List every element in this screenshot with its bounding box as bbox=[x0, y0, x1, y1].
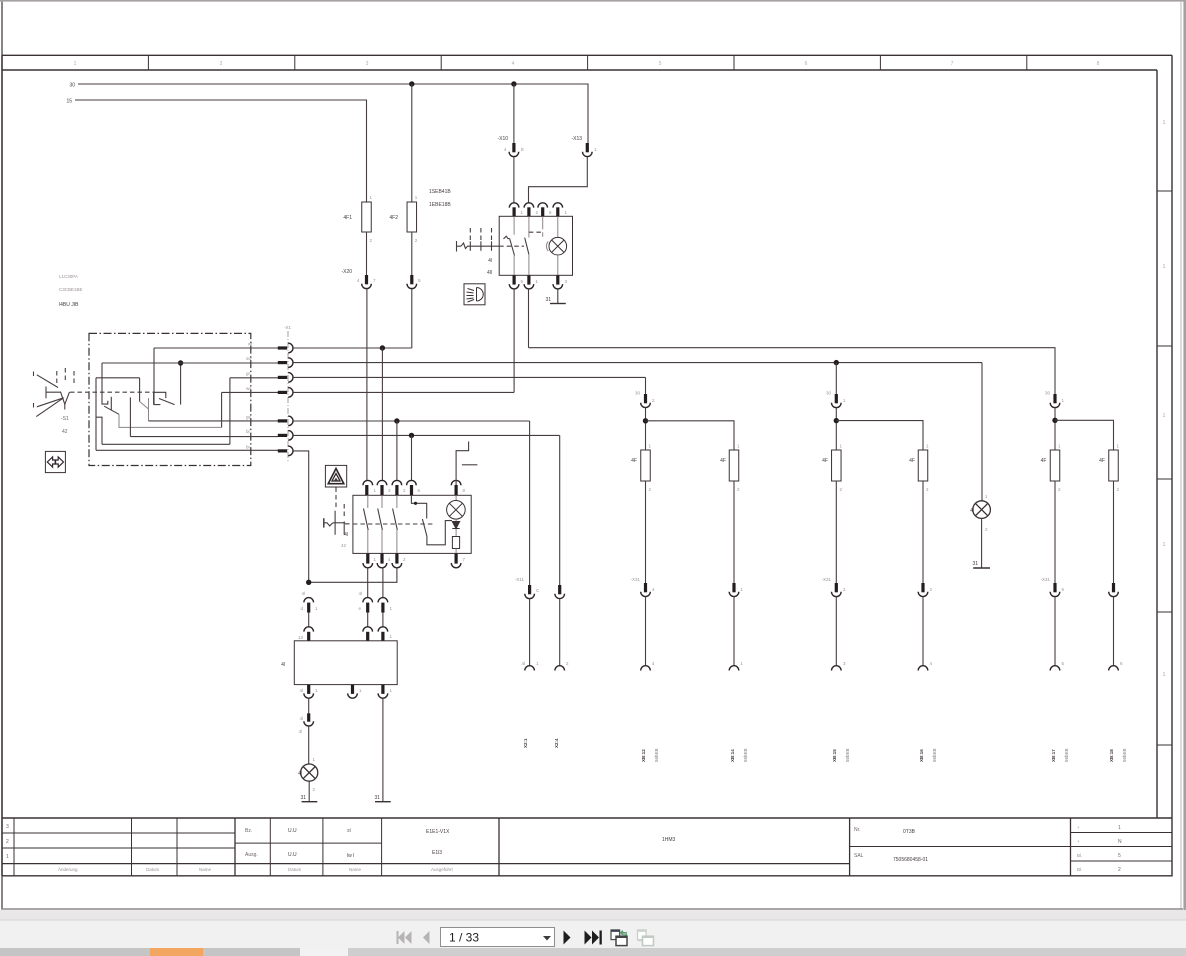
hazard top pin3 arc bbox=[392, 480, 402, 485]
viewer gap strip bbox=[0, 910, 1186, 920]
revision index column bbox=[13, 818, 15, 876]
fuse F1 bbox=[362, 202, 372, 232]
inner frame right bbox=[1156, 70, 1158, 818]
junction row5/x397 bbox=[394, 418, 399, 423]
S30 contact1 lower stem bbox=[513, 256, 515, 276]
hazard contact4 blade bbox=[422, 519, 427, 537]
svg-text:4: 4 bbox=[512, 61, 515, 67]
contact4 arm from row2 bbox=[180, 363, 182, 405]
revision col divider 2 bbox=[176, 818, 178, 876]
hazard bottom pin2 arc bbox=[377, 563, 387, 568]
svg-text:4l: 4l bbox=[301, 591, 305, 596]
svg-text:1: 1 bbox=[1163, 542, 1166, 548]
hazard resistor stem bbox=[455, 549, 457, 554]
hazard step dot bbox=[414, 502, 417, 505]
wire S30 pin2 down to busP bbox=[528, 289, 530, 348]
svg-text:4l: 4l bbox=[344, 532, 348, 538]
key mech tick2 bbox=[480, 241, 482, 251]
svg-text:X2:1: X2:1 bbox=[523, 738, 528, 748]
svg-text:13: 13 bbox=[298, 635, 304, 640]
junction bus30/X10 bbox=[511, 81, 516, 86]
x382 pair1 bar bbox=[381, 603, 384, 613]
wire x559 to terminal bbox=[559, 599, 561, 667]
colF wire down bbox=[1113, 481, 1115, 583]
hazard contact4 return bbox=[427, 521, 452, 545]
X1 pin3 arc bbox=[288, 373, 293, 383]
wire S30 pin1 down to row4 bbox=[513, 289, 515, 392]
svg-text:Ausg.: Ausg. bbox=[245, 852, 258, 858]
row5 wire internal bbox=[149, 420, 279, 422]
wire hazard pin3 to row7 node bbox=[309, 568, 397, 583]
S30 lamp stem lower bbox=[557, 255, 559, 275]
X1 pin4 arc bbox=[288, 388, 293, 398]
x367 pair1 arc bbox=[363, 598, 373, 603]
svg-text:st: st bbox=[347, 828, 352, 834]
top zone band divider 4 bbox=[587, 55, 589, 70]
headlight lens bbox=[477, 288, 484, 302]
hazard top pin2 bar bbox=[380, 485, 383, 495]
svg-text:4l: 4l bbox=[488, 258, 492, 264]
ground bar A1 bbox=[375, 801, 391, 803]
svg-text:X2:4: X2:4 bbox=[554, 738, 559, 748]
internal left drop to row7 bbox=[95, 378, 97, 451]
svg-text:Bl.: Bl. bbox=[1077, 867, 1082, 872]
S30 bottom pin3 bar bbox=[556, 275, 559, 284]
svg-text:30: 30 bbox=[1045, 391, 1051, 396]
junction bus30/F2 bbox=[409, 81, 414, 86]
flasher unit A1 box bbox=[294, 641, 397, 685]
A1 bottom pin2 arc bbox=[348, 693, 358, 698]
top zone labels bbox=[74, 61, 1100, 67]
wire x411 drop bbox=[411, 435, 413, 480]
mech dashes into box bbox=[345, 523, 353, 525]
svg-text:7: 7 bbox=[951, 61, 954, 67]
schematic inner frame (zone band bottom) bbox=[2, 69, 1157, 71]
svg-text:-X13: -X13 bbox=[571, 136, 582, 142]
prev page button bbox=[423, 931, 430, 944]
wire F2 to X3 bbox=[411, 232, 413, 275]
bus 15 wire bbox=[75, 100, 367, 202]
connector X10 socket arc bbox=[509, 152, 519, 157]
hazard lamp cross bbox=[449, 503, 462, 516]
fuse F2 bbox=[407, 202, 417, 232]
hazard hook tick bbox=[462, 464, 478, 466]
row3 wire internal bbox=[230, 377, 278, 379]
colC drop from busQ bbox=[835, 363, 837, 394]
svg-text:E: E bbox=[521, 147, 524, 152]
svg-text:+: + bbox=[1077, 839, 1080, 844]
S30 contact2 lower stem bbox=[528, 254, 530, 275]
svg-text:56bEB: 56bEB bbox=[1064, 748, 1069, 762]
X1 pin5 bar bbox=[278, 419, 287, 422]
wire row6 drop bbox=[559, 435, 561, 585]
description col divider bbox=[498, 818, 500, 876]
drawing area bottom border bbox=[2, 817, 1172, 819]
page left edge bbox=[1, 2, 3, 909]
toolbar top border bbox=[0, 919, 1186, 921]
open in new window icon bbox=[611, 930, 627, 946]
key switch S1 wiper V bbox=[61, 392, 70, 405]
x367 gap wire bbox=[367, 613, 369, 627]
svg-text:L1C30PA: L1C30PA bbox=[59, 274, 78, 279]
x308 lower pair bar bbox=[307, 713, 310, 721]
wire A1 pin3 down to ground bbox=[382, 698, 384, 802]
key switch S1 lever lower1 bbox=[37, 398, 64, 407]
mid row divider bbox=[235, 842, 382, 844]
S30 bottom pin2 arc bbox=[524, 284, 534, 289]
S30 top pin4 bar bbox=[556, 207, 559, 216]
first page button bbox=[398, 931, 405, 944]
svg-text:31: 31 bbox=[972, 561, 978, 567]
terminal x529 arc bbox=[525, 666, 535, 671]
wire F1 to X2 bbox=[366, 232, 368, 275]
push rod tick2 bbox=[343, 521, 345, 534]
A1 bottom pin1 bar bbox=[307, 685, 310, 694]
colC wire to dot bbox=[835, 408, 837, 451]
svg-text:Bl.: Bl. bbox=[1077, 853, 1082, 858]
dashed enclosure box bbox=[89, 333, 251, 465]
contact1 fixed L bbox=[102, 378, 108, 404]
switch S30 box bbox=[499, 216, 572, 275]
doc number row divider bbox=[850, 846, 1071, 848]
svg-text:ws: ws bbox=[246, 386, 252, 391]
wire x397 drop bbox=[396, 421, 398, 481]
contact2 arm bbox=[139, 378, 141, 402]
wire x529 to terminal bbox=[529, 599, 531, 667]
sheet symbol arrows box bbox=[45, 451, 65, 472]
taskbar strip bbox=[0, 948, 1186, 956]
colD terminal arc bbox=[918, 666, 928, 671]
svg-text:Datum: Datum bbox=[146, 867, 160, 872]
svg-text:6: 6 bbox=[805, 61, 808, 67]
internal bottom link bbox=[102, 443, 230, 445]
hazard contact3 blade bbox=[393, 509, 398, 531]
title block header row line bbox=[2, 863, 850, 865]
connector X2 socket arc bbox=[362, 284, 372, 289]
row2 wire internal bbox=[102, 362, 278, 364]
window top border bbox=[0, 0, 1186, 2]
hazard resistor bbox=[452, 537, 459, 549]
hazard lamp stem bbox=[455, 495, 457, 500]
doc number col divider bbox=[849, 818, 851, 876]
svg-text:4F: 4F bbox=[1099, 458, 1105, 464]
title block bottom border bbox=[2, 875, 1172, 877]
key switch terminal bbox=[457, 241, 462, 252]
svg-text:-X31: -X31 bbox=[1040, 577, 1050, 582]
colB wire to terminal bbox=[733, 597, 735, 667]
S30 top pin1 bar bbox=[513, 207, 516, 216]
svg-text:-X10: -X10 bbox=[497, 136, 508, 142]
hazard bottom pin1 arc bbox=[363, 563, 373, 568]
hazard contact2 lower bbox=[381, 530, 383, 553]
svg-text:30: 30 bbox=[69, 83, 75, 89]
connector X3 pin bar bbox=[410, 275, 413, 284]
wire X13 to K pin2 bbox=[529, 157, 588, 203]
right zone band divider b bbox=[1157, 345, 1172, 347]
A1 bottom pin3 arc bbox=[378, 693, 388, 698]
wire lamp H3 to ground bbox=[981, 518, 983, 568]
sheet info row divider 3 bbox=[1071, 860, 1173, 862]
svg-text:XB:12: XB:12 bbox=[641, 749, 646, 762]
svg-text:1: 1 bbox=[1163, 120, 1166, 126]
colA lower connector arc bbox=[641, 592, 651, 597]
top zone band divider 7 bbox=[1026, 55, 1028, 70]
page bottom edge bbox=[1, 908, 1183, 910]
colF lower connector bar bbox=[1112, 583, 1115, 592]
revision col divider 1 bbox=[131, 818, 133, 876]
push rod tick2 dashes bbox=[343, 504, 345, 517]
internal link y427 bbox=[119, 426, 222, 428]
colC connector arc bbox=[832, 403, 842, 408]
junction row1/x382 bbox=[380, 345, 385, 350]
page right edge bbox=[1180, 2, 1182, 909]
svg-text:4F: 4F bbox=[909, 458, 915, 464]
x308 pair1 arc bbox=[304, 598, 314, 603]
row3 vertical internal bbox=[229, 378, 231, 445]
hazard contact1 stem bbox=[367, 495, 369, 508]
hazard top pin4 arc bbox=[407, 480, 417, 485]
svg-text:1: 1 bbox=[1163, 672, 1166, 678]
x367 pair2 bar bbox=[366, 632, 369, 641]
branch colC to colD bbox=[836, 421, 923, 450]
X1 pin2 arc bbox=[288, 358, 293, 368]
svg-text:C3CBE1BE: C3CBE1BE bbox=[59, 287, 83, 292]
colA connector arc bbox=[641, 403, 651, 408]
svg-text:E1l3: E1l3 bbox=[432, 850, 442, 856]
bus 30 wire bbox=[78, 84, 588, 143]
key mech tick1 dash bbox=[469, 228, 471, 240]
wire x382 drop bbox=[381, 348, 383, 481]
A1 bottom pin2 bar bbox=[351, 685, 354, 694]
wire hazard pin1 down bbox=[367, 568, 369, 598]
svg-text:4F: 4F bbox=[1041, 458, 1047, 464]
hazard switch box bbox=[353, 495, 471, 553]
hazard bottom pin1 bar bbox=[366, 553, 369, 563]
arrow right bbox=[56, 457, 64, 467]
row4 wire internal bbox=[222, 391, 278, 393]
svg-text:wt: wt bbox=[248, 342, 253, 347]
mech link key to box bbox=[70, 391, 154, 393]
svg-text:3: 3 bbox=[366, 61, 369, 67]
hazard bottom pin5 arc bbox=[451, 563, 461, 568]
hazard top pin5 arc bbox=[451, 480, 461, 485]
top zone band divider 2 bbox=[294, 55, 296, 70]
svg-text:E1E1-V1X: E1E1-V1X bbox=[426, 829, 450, 835]
junction colE bbox=[1052, 418, 1057, 423]
row7 wire external bbox=[293, 451, 309, 582]
svg-text:-X31: -X31 bbox=[630, 577, 640, 582]
wire F1 column down to hazard pin1 bbox=[366, 289, 368, 481]
S30 pin3 stem bbox=[542, 216, 544, 229]
contact4 blade bbox=[159, 399, 175, 405]
svg-text:-X11: -X11 bbox=[515, 577, 525, 582]
branch colE to colF bbox=[1055, 420, 1114, 450]
arrow left bbox=[47, 457, 55, 467]
hazard bottom pin2 bar bbox=[380, 553, 383, 563]
svg-text:Änderung: Änderung bbox=[58, 866, 78, 872]
connector X10 pin bar bbox=[512, 143, 515, 152]
hazard top pin5 bar bbox=[455, 485, 458, 495]
hazard top pin3 bar bbox=[395, 485, 398, 495]
junction colC bbox=[834, 418, 839, 423]
key mech tick2 dash bbox=[480, 228, 482, 240]
svg-text:4l: 4l bbox=[521, 661, 525, 666]
title block left frame bbox=[1, 55, 3, 876]
hazard pin4 internal step bbox=[411, 495, 426, 518]
colD wire to terminal bbox=[922, 597, 924, 667]
key mech tick1 bbox=[469, 241, 471, 251]
key switch S1 terminal bbox=[46, 387, 61, 399]
X1 pin1 arc bbox=[288, 343, 293, 353]
svg-text:56bEB: 56bEB bbox=[654, 748, 659, 762]
colF lower connector arc bbox=[1109, 592, 1119, 597]
connector strip dashdot bbox=[287, 331, 289, 463]
svg-text:-S1: -S1 bbox=[61, 416, 69, 422]
svg-text:1: 1 bbox=[1163, 264, 1166, 270]
row4 wire external bbox=[293, 391, 514, 393]
svg-text:30: 30 bbox=[826, 391, 832, 396]
A1 bottom pin3 bar bbox=[381, 685, 384, 694]
S30 top pin3 arc bbox=[538, 203, 548, 208]
row6 wire internal bbox=[130, 436, 278, 438]
X1 pin6 bar bbox=[278, 434, 287, 437]
x367 pair2 arc bbox=[363, 627, 373, 632]
wire F2 drop bbox=[411, 84, 413, 202]
S30 contact1 blade bbox=[510, 239, 515, 256]
sheet info row divider 2 bbox=[1071, 846, 1173, 848]
revision table row line 2 bbox=[2, 847, 235, 849]
window right border bbox=[1183, 0, 1186, 910]
colE wire down bbox=[1054, 481, 1056, 583]
hazard bottom pin3 arc bbox=[392, 563, 402, 568]
svg-text:56bEB: 56bEB bbox=[1122, 748, 1127, 762]
right zone band divider e bbox=[1157, 744, 1172, 746]
X1 pin3 bar bbox=[278, 376, 287, 379]
x308 pair2 arc bbox=[304, 627, 314, 632]
row1 wire external bbox=[293, 347, 412, 349]
svg-text:4ll: 4ll bbox=[487, 270, 492, 276]
svg-text:+: + bbox=[1077, 825, 1080, 830]
mid col divider 3 bbox=[381, 818, 383, 876]
hazard contact1 blade bbox=[364, 509, 369, 531]
fuse F5 bbox=[641, 450, 651, 481]
contact1 blade bbox=[104, 406, 119, 414]
svg-text:Name: Name bbox=[199, 867, 212, 872]
hazard push rod bbox=[334, 511, 336, 535]
wire row3 drop at x645 bbox=[645, 377, 647, 394]
hazard top pin1 bar bbox=[365, 485, 368, 495]
colB wire down bbox=[733, 481, 735, 583]
svg-text:XB:16: XB:16 bbox=[919, 749, 924, 762]
headlight rays bbox=[467, 289, 475, 303]
svg-text:56bEB: 56bEB bbox=[932, 748, 937, 762]
row5 wire external bbox=[293, 420, 530, 422]
svg-text:2: 2 bbox=[1118, 867, 1121, 873]
ground wire under S30 bbox=[557, 289, 559, 304]
right zone band divider a bbox=[1157, 190, 1172, 192]
colA lower connector bar bbox=[644, 583, 647, 592]
colA terminal arc bbox=[641, 666, 651, 671]
X1 pin7 bar bbox=[278, 449, 287, 452]
svg-text:30: 30 bbox=[635, 391, 641, 396]
push button terminal bbox=[323, 518, 325, 527]
hazard top pin1 arc bbox=[363, 480, 373, 485]
svg-text:ge: ge bbox=[246, 415, 252, 420]
sheet info col divider bbox=[1070, 818, 1072, 876]
S30 bottom pin2 bar bbox=[527, 275, 530, 284]
contact3 stem bbox=[148, 398, 150, 421]
wire bus30 to X10 bbox=[513, 84, 515, 143]
colB lower connector bar bbox=[732, 583, 735, 592]
svg-text:1: 1 bbox=[1163, 413, 1166, 419]
svg-text:7505680458-01: 7505680458-01 bbox=[893, 857, 928, 863]
S30 contact2 stem bbox=[528, 216, 530, 237]
svg-text:Ausgeführt: Ausgeführt bbox=[431, 867, 454, 872]
svg-text:br: br bbox=[246, 445, 251, 450]
colC wire down bbox=[835, 481, 837, 583]
toolbar background bbox=[0, 921, 1186, 949]
ground bar H3 bbox=[973, 567, 990, 569]
S30 lamp arc mark bbox=[546, 242, 548, 252]
key switch S1 wiper tail bbox=[64, 404, 66, 409]
lamp H1 bbox=[301, 764, 318, 781]
warning triangle inner bbox=[332, 474, 340, 482]
ground bar bbox=[550, 303, 566, 305]
svg-text:4F: 4F bbox=[720, 458, 726, 464]
mid connector x529 bar bbox=[528, 585, 531, 594]
svg-text:2: 2 bbox=[220, 61, 223, 67]
branch colA to colB bbox=[646, 421, 735, 450]
svg-text:4l: 4l bbox=[281, 662, 285, 668]
svg-text:1HM3: 1HM3 bbox=[662, 837, 676, 843]
internal vertical x221 bbox=[221, 392, 223, 427]
contact2 movable drop bbox=[129, 397, 131, 436]
push button zigzag bbox=[324, 523, 333, 526]
lamp H3 wire from busQ bbox=[981, 363, 983, 501]
svg-text:5: 5 bbox=[1118, 853, 1121, 859]
svg-text:4l: 4l bbox=[358, 591, 362, 596]
colD wire down bbox=[922, 481, 924, 583]
revision col divider 3 bbox=[234, 818, 236, 876]
colE terminal arc bbox=[1050, 666, 1060, 671]
wire lamp H1 to ground bbox=[308, 781, 310, 802]
wire X10 to K pin1 bbox=[513, 157, 515, 203]
svg-text:2: 2 bbox=[6, 839, 9, 845]
hazard contact2 stem bbox=[381, 495, 383, 508]
connector X13 pin bar bbox=[586, 143, 589, 152]
row2 corner drop bbox=[101, 363, 103, 378]
S30 contact1 stem bbox=[513, 216, 515, 234]
svg-text:XB:14: XB:14 bbox=[730, 749, 735, 762]
key switch S1 lever upper bbox=[37, 375, 58, 388]
S30 lamp stem upper bbox=[557, 216, 559, 237]
hazard contact3 stem bbox=[396, 495, 398, 508]
svg-text:4F: 4F bbox=[631, 458, 637, 464]
open in new window icon (disabled) bbox=[638, 930, 654, 946]
svg-text:N: N bbox=[1118, 839, 1122, 845]
svg-text:1SEB41B: 1SEB41B bbox=[429, 189, 451, 195]
junction busQ colC bbox=[834, 360, 839, 365]
top zone band divider 5 bbox=[733, 55, 735, 70]
x308 gap wire bbox=[308, 613, 310, 627]
svg-text:56bEB: 56bEB bbox=[743, 748, 748, 762]
fuse F7 bbox=[832, 450, 842, 481]
junction x308/y582 bbox=[306, 580, 311, 585]
top zone band divider 1 bbox=[147, 55, 149, 70]
X1 pin6 arc bbox=[288, 431, 293, 441]
colC lower connector arc bbox=[832, 592, 842, 597]
mid connector x529 arc bbox=[525, 594, 535, 599]
